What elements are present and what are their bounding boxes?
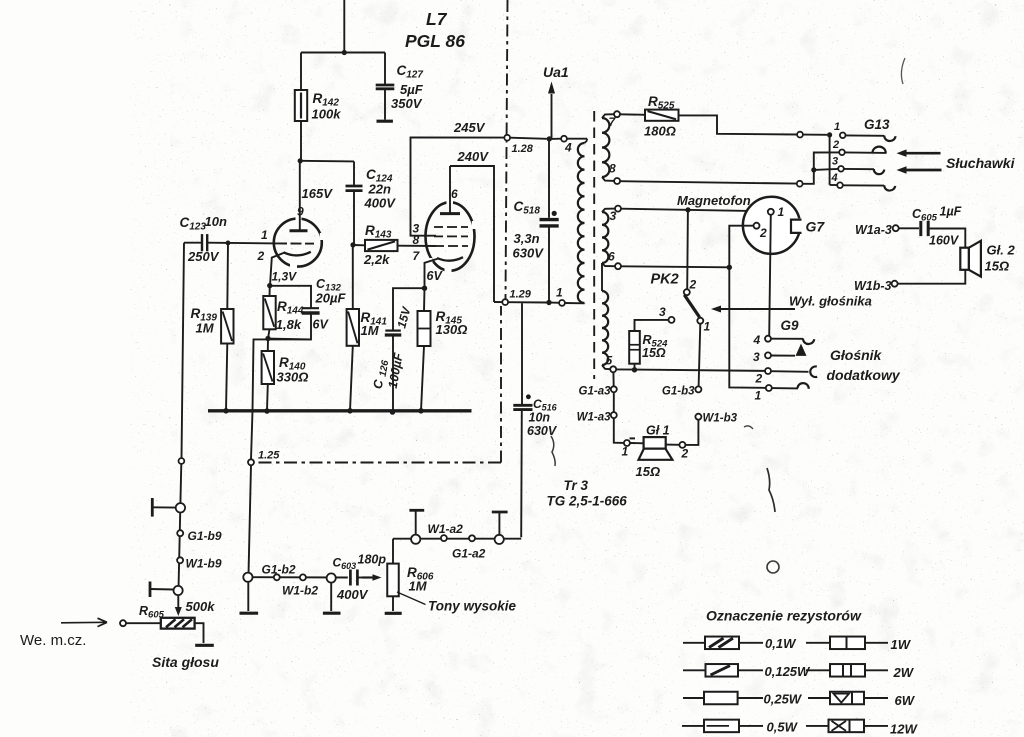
- svg-text:Głośnik: Głośnik: [830, 347, 883, 363]
- svg-text:We. m.cz.: We. m.cz.: [20, 632, 86, 649]
- svg-text:160V: 160V: [929, 234, 960, 248]
- label C123 10n 250V: [180, 214, 227, 264]
- resistor R606: [385, 539, 402, 614]
- svg-text:0,5W: 0,5W: [767, 720, 799, 735]
- label Sita glosu: [152, 654, 219, 670]
- pin 8: [609, 162, 620, 185]
- svg-text:0,125W: 0,125W: [765, 664, 812, 679]
- svg-text:1: 1: [704, 320, 711, 334]
- label Tony wysokie: [428, 599, 517, 614]
- label PK2: [651, 272, 711, 334]
- shield symbol left: [409, 510, 424, 534]
- wire a3 link: [613, 392, 615, 412]
- artifact streak: [767, 468, 775, 512]
- svg-text:2W: 2W: [893, 665, 915, 680]
- node W1b-3: [854, 279, 892, 293]
- artifact mark2: [901, 58, 905, 84]
- svg-text:1.25: 1.25: [258, 450, 280, 462]
- svg-text:5: 5: [606, 354, 613, 368]
- node G1-b3: [662, 386, 701, 398]
- arrow headphones 2: [897, 166, 942, 174]
- G13 contact 2: [832, 139, 887, 155]
- svg-text:180p: 180p: [358, 553, 387, 567]
- G13 contact 3: [832, 156, 884, 175]
- svg-text:2: 2: [689, 278, 697, 292]
- svg-text:8: 8: [609, 162, 616, 176]
- G9 contact 3: [753, 344, 807, 364]
- svg-text:G1-b9: G1-b9: [188, 529, 222, 543]
- svg-text:630V: 630V: [513, 246, 545, 261]
- wire W1a2 row: [393, 538, 521, 540]
- node circle a2-4: [495, 535, 504, 544]
- svg-text:1: 1: [834, 121, 840, 133]
- node G1-b9: [177, 529, 222, 543]
- pin 5: [606, 354, 617, 373]
- svg-text:6: 6: [608, 250, 615, 264]
- svg-text:G1-b3: G1-b3: [662, 386, 695, 398]
- label Ua1: [543, 64, 569, 80]
- node W1-b3: [695, 413, 737, 425]
- svg-text:1µF: 1µF: [940, 205, 962, 219]
- label pentode pins: [413, 187, 459, 263]
- svg-text:TG 2,5-1-666: TG 2,5-1-666: [547, 494, 628, 509]
- capacitor C516: [513, 303, 532, 537]
- svg-text:Wył. głośnika: Wył. głośnika: [789, 294, 872, 309]
- label R524 15: [642, 333, 668, 360]
- label Magnetofon: [677, 193, 751, 208]
- svg-text:630V: 630V: [527, 424, 558, 438]
- label C603 180p 400V: [333, 553, 387, 603]
- svg-text:1M: 1M: [409, 579, 428, 594]
- svg-text:1.29: 1.29: [510, 289, 532, 301]
- svg-text:Gł. 2: Gł. 2: [987, 243, 1016, 258]
- pentode U1b: [426, 166, 477, 273]
- label C518 3,3n 630V: [513, 199, 545, 261]
- svg-text:1M: 1M: [361, 323, 380, 338]
- wire feedback: [240, 339, 312, 613]
- label R605 500k: [139, 599, 215, 621]
- wire contact3 to R524: [635, 320, 669, 331]
- potentiometer R605: [126, 618, 214, 646]
- node G1-b2: [243, 563, 296, 582]
- svg-text:3: 3: [610, 209, 617, 223]
- capacitor C127: [376, 53, 395, 120]
- wire anode to C124: [300, 160, 354, 163]
- label C127 5uF 350V: [391, 63, 424, 111]
- svg-text:1: 1: [755, 389, 762, 403]
- resistor R140: [262, 339, 274, 411]
- capacitor C132: [268, 286, 320, 340]
- resistor R139: [221, 243, 233, 411]
- transformer core: [593, 111, 595, 379]
- wire magnetofon: [621, 207, 768, 212]
- label C605 1uF 160V: [912, 205, 962, 248]
- shield symbol right: [492, 512, 508, 535]
- legend 12W: [806, 720, 918, 737]
- svg-text:3: 3: [753, 350, 760, 364]
- wire from pin8: [620, 152, 839, 186]
- node cathode junction: [267, 283, 272, 288]
- transformer secondary W3: [602, 291, 610, 369]
- connector G9 label: [781, 318, 800, 333]
- legend 1W: [806, 637, 912, 652]
- svg-text:1: 1: [261, 228, 268, 242]
- speaker Gl.2: [960, 241, 981, 277]
- G9 contact 1: [755, 383, 809, 402]
- wire top horizontal: [301, 52, 385, 54]
- svg-text:15Ω: 15Ω: [636, 464, 661, 479]
- svg-text:10n: 10n: [529, 411, 551, 425]
- svg-text:G13: G13: [864, 117, 890, 132]
- svg-text:G9: G9: [781, 318, 800, 333]
- svg-text:6V: 6V: [313, 318, 330, 332]
- svg-text:1M: 1M: [196, 321, 215, 336]
- svg-text:W1-b2: W1-b2: [282, 584, 318, 598]
- svg-text:350V: 350V: [391, 96, 423, 111]
- switch PK2: [669, 289, 704, 324]
- svg-text:6W: 6W: [895, 693, 916, 708]
- label R143 2,2k: [363, 223, 392, 267]
- wire anode 240V: [450, 166, 494, 302]
- wire G7 pin2: [727, 226, 766, 388]
- node 1.25: [248, 450, 280, 466]
- triode U1a: [274, 161, 325, 269]
- node circle a2-1: [411, 535, 420, 544]
- svg-text:15Ω: 15Ω: [985, 259, 1010, 274]
- svg-text:W1-a3: W1-a3: [577, 412, 611, 424]
- shield symbol b9-2: [150, 582, 174, 598]
- svg-text:W1a-3: W1a-3: [855, 223, 892, 237]
- boundary line dash-dot: [256, 0, 508, 463]
- G9 contact 4: [753, 333, 815, 347]
- pin 3: [610, 206, 622, 223]
- node chain c3: [174, 586, 183, 595]
- node circle a2-3: [469, 535, 475, 541]
- svg-text:G7: G7: [806, 219, 826, 235]
- capacitor C123: [184, 234, 207, 251]
- svg-text:3: 3: [832, 156, 838, 168]
- resistor R145: [418, 288, 431, 411]
- svg-text:1: 1: [556, 286, 563, 300]
- label R525 180: [644, 94, 676, 139]
- label G1-a2: [452, 547, 486, 561]
- G13 contact 4: [831, 172, 896, 191]
- svg-text:Gł 1: Gł 1: [646, 424, 670, 438]
- label R139 1M: [191, 306, 218, 336]
- pin 7: [609, 111, 621, 129]
- svg-text:400V: 400V: [364, 196, 397, 211]
- label R140 330: [277, 355, 309, 385]
- label triode pins: [257, 205, 305, 264]
- svg-text:22n: 22n: [368, 182, 391, 197]
- svg-text:Tony wysokie: Tony wysokie: [428, 599, 517, 614]
- svg-text:2: 2: [755, 372, 763, 386]
- svg-text:3: 3: [659, 305, 666, 319]
- wire grid: [208, 241, 277, 246]
- label 6V pentode: [427, 269, 444, 283]
- wire contact1 down: [699, 324, 701, 387]
- svg-text:1,3V: 1,3V: [272, 270, 298, 284]
- svg-text:1.28: 1.28: [512, 143, 534, 155]
- resistor R525: [620, 110, 797, 135]
- node G13 in1: [797, 132, 832, 138]
- svg-text:15Ω: 15Ω: [642, 346, 666, 360]
- svg-text:0,1W: 0,1W: [765, 636, 797, 651]
- legend 0,5W: [682, 720, 799, 735]
- svg-text:2,2k: 2,2k: [363, 252, 390, 267]
- svg-text:20µF: 20µF: [315, 291, 347, 306]
- legend 2W: [806, 664, 915, 680]
- label R144 1,8k: [276, 299, 304, 332]
- label R606 1M: [407, 565, 434, 594]
- wire left chain: [179, 243, 185, 589]
- label R145 130: [436, 309, 468, 337]
- svg-text:5µF: 5µF: [400, 82, 424, 97]
- legend 0,25W: [683, 692, 803, 707]
- svg-text:2: 2: [681, 447, 689, 461]
- label W1-a2: [428, 522, 464, 536]
- capacitor C518: [540, 139, 559, 303]
- label R141 1M: [361, 310, 388, 338]
- label 245V: [453, 120, 486, 135]
- svg-text:9: 9: [297, 205, 304, 219]
- svg-text:0,25W: 0,25W: [764, 692, 803, 707]
- label C516 10n 630V: [527, 397, 558, 438]
- resistor R524: [629, 331, 640, 372]
- label 165V: [302, 186, 334, 201]
- label We. m.cz.: [20, 632, 86, 649]
- wire supply vertical: [342, 0, 347, 55]
- wire pin5 row: [616, 369, 765, 371]
- svg-text:Magnetofon: Magnetofon: [677, 193, 751, 208]
- label C126 100uF 15V: [371, 305, 414, 390]
- pointer tony wysokie: [397, 592, 426, 605]
- svg-text:W1-a2: W1-a2: [428, 522, 464, 536]
- supply arrow Ua1: [548, 82, 555, 139]
- label Tr 3: [547, 478, 628, 509]
- label G7 pins: [759, 205, 825, 240]
- legend 0,125W: [683, 664, 811, 679]
- svg-text:Tr 3: Tr 3: [564, 478, 589, 493]
- label Gl.1 pins: [622, 424, 689, 480]
- label R142 100k: [312, 91, 342, 122]
- node W1-b9: [177, 557, 222, 571]
- label W1-b2: [282, 584, 318, 598]
- capacitor C124: [346, 161, 363, 247]
- svg-text:2: 2: [832, 139, 839, 151]
- arrow headphones 1: [897, 149, 941, 157]
- transformer secondary W1: [602, 114, 617, 181]
- arrow onto R605: [175, 595, 182, 616]
- label C124 22n 400V: [364, 167, 397, 211]
- transformer primary winding: [578, 139, 587, 304]
- wire G7 pin1 down: [769, 215, 771, 336]
- transformer secondary W2: [602, 209, 615, 291]
- node chain c1: [179, 458, 185, 464]
- svg-text:Oznaczenie rezystorów: Oznaczenie rezystorów: [706, 608, 862, 624]
- node circle a2-2: [441, 535, 447, 541]
- svg-text:1,8k: 1,8k: [276, 317, 302, 332]
- capacitor C126: [385, 288, 425, 412]
- svg-text:G1-a2: G1-a2: [452, 547, 486, 561]
- node 1.29 row: [494, 299, 585, 306]
- label 1,3V: [272, 270, 298, 284]
- artifact blob circle: [767, 561, 779, 573]
- svg-text:6V: 6V: [427, 269, 444, 283]
- wire pentode cathode: [422, 259, 438, 291]
- label 1.28 4: [512, 141, 573, 156]
- artifact mark1: [744, 426, 753, 429]
- svg-text:dodatkowy: dodatkowy: [827, 367, 901, 383]
- G13 contact 1: [834, 121, 896, 141]
- svg-text:330Ω: 330Ω: [277, 370, 309, 385]
- label Gl.2 15: [985, 243, 1016, 274]
- wire g2 245V: [411, 137, 505, 235]
- svg-text:245V: 245V: [453, 120, 486, 135]
- svg-text:6: 6: [451, 187, 458, 201]
- svg-text:L7: L7: [426, 9, 448, 29]
- svg-text:4: 4: [564, 141, 572, 155]
- resistor R143: [353, 240, 436, 251]
- node W1-a3: [577, 412, 617, 424]
- svg-text:10n: 10n: [205, 214, 227, 229]
- capacitor C603: [350, 570, 362, 586]
- svg-text:1: 1: [622, 445, 629, 459]
- svg-text:100k: 100k: [312, 107, 342, 122]
- svg-text:1W: 1W: [891, 637, 912, 652]
- svg-text:W1-b9: W1-b9: [186, 557, 222, 571]
- capacitor C605: [899, 221, 966, 248]
- arrow wyl glosnika: [711, 306, 795, 313]
- node R605 input: [120, 620, 126, 626]
- ground bus: [208, 408, 472, 415]
- wire G13 1-4 link: [830, 135, 837, 185]
- svg-text:PGL 86: PGL 86: [405, 31, 465, 51]
- arrow input: [61, 618, 107, 626]
- wire triode cathode: [270, 253, 284, 286]
- artifact mark3: [551, 436, 555, 466]
- wire to PK2 contact2: [686, 210, 689, 289]
- svg-text:4: 4: [753, 333, 761, 347]
- svg-text:PK2: PK2: [651, 272, 679, 288]
- label 240V: [457, 149, 490, 164]
- svg-text:165V: 165V: [302, 186, 334, 201]
- svg-text:2: 2: [759, 226, 767, 240]
- svg-text:4: 4: [831, 172, 838, 184]
- svg-text:G1-a3: G1-a3: [579, 386, 612, 398]
- svg-text:2: 2: [257, 249, 265, 263]
- label Wyl. glosnika: [789, 294, 872, 309]
- label L7 PCL86: [405, 9, 465, 51]
- wire to speaker Gl1: [614, 418, 624, 443]
- pin 6: [608, 250, 621, 270]
- svg-text:180Ω: 180Ω: [644, 124, 676, 139]
- svg-text:240V: 240V: [457, 149, 490, 164]
- arrow into R606: [362, 574, 382, 581]
- wire pin6 to junction: [621, 266, 729, 267]
- legend 6W: [808, 692, 916, 708]
- label C132 20uF 6V: [313, 277, 347, 332]
- svg-text:Słuchawki: Słuchawki: [946, 155, 1016, 171]
- label Glosnik dodatkowy: [827, 347, 901, 383]
- wire pin5 down: [612, 372, 614, 386]
- svg-text:400V: 400V: [336, 587, 369, 602]
- legend 0,1W: [683, 636, 797, 651]
- resistor R141: [347, 245, 359, 411]
- legend title: [706, 608, 862, 624]
- node G1-a3: [579, 386, 617, 398]
- svg-text:250V: 250V: [187, 249, 220, 264]
- node chain c2: [176, 503, 185, 512]
- connector G7: [743, 197, 804, 254]
- speaker Gl.1: [624, 420, 699, 460]
- node circle C603 gnd: [323, 573, 341, 613]
- svg-text:W1-b3: W1-b3: [703, 413, 738, 425]
- shield symbol b9-1: [152, 498, 175, 517]
- svg-text:3,3n: 3,3n: [514, 231, 540, 246]
- label Sluchawki: [946, 155, 1016, 171]
- node 1.28 circles: [504, 135, 587, 142]
- svg-text:500k: 500k: [186, 599, 216, 614]
- ground C127: [377, 120, 393, 123]
- resistor R144: [263, 286, 275, 342]
- node W1a-3: [855, 223, 899, 237]
- svg-text:W1b-3: W1b-3: [854, 279, 892, 293]
- label 1.29 1: [510, 286, 564, 301]
- G9 contact 2: [755, 366, 818, 385]
- svg-text:130Ω: 130Ω: [436, 322, 468, 337]
- svg-text:12W: 12W: [890, 722, 918, 737]
- wire b2 row: [253, 574, 348, 580]
- connector G13: [864, 117, 890, 132]
- wire Gl.2 return: [892, 270, 966, 287]
- svg-text:Sita głosu: Sita głosu: [152, 654, 219, 670]
- svg-text:1: 1: [778, 205, 785, 219]
- resistor R142: [295, 53, 307, 164]
- svg-text:Ua1: Ua1: [543, 64, 569, 80]
